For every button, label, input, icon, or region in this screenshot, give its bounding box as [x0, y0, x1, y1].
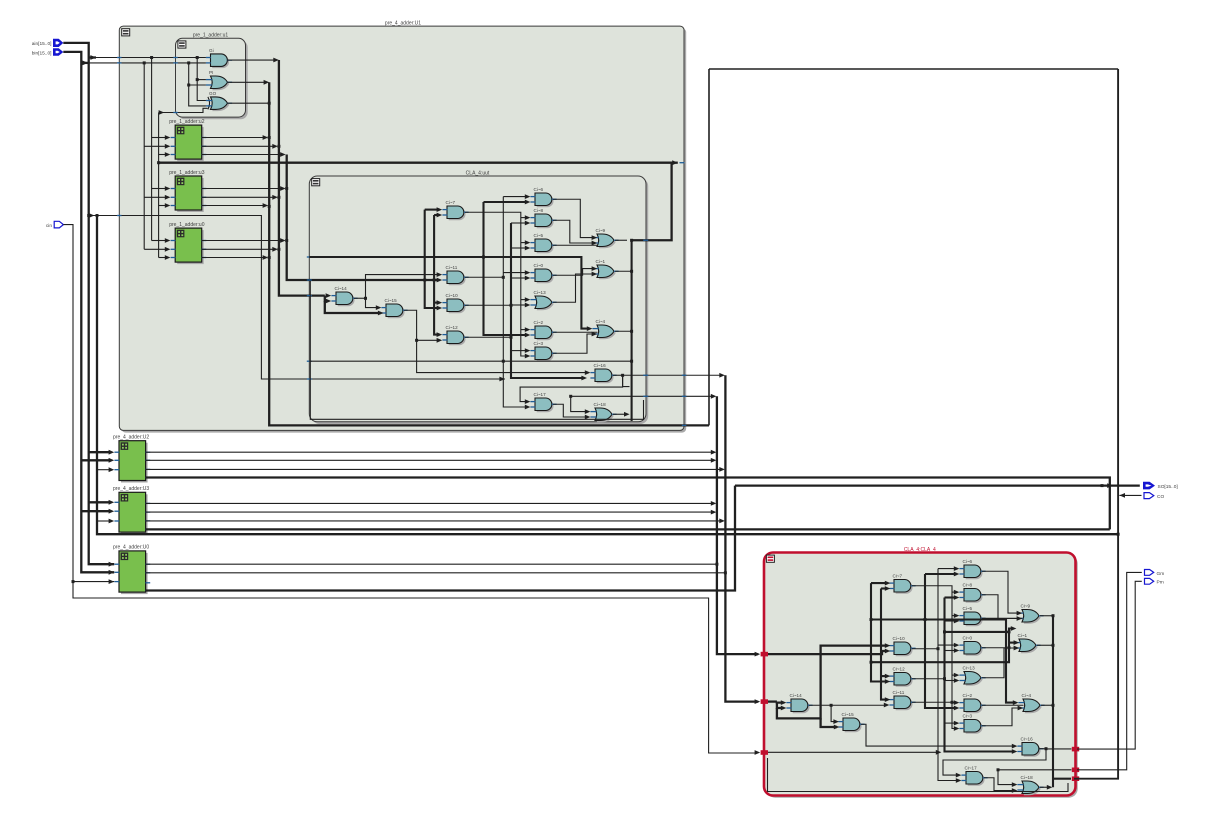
- svg-text:Ci~13: Ci~13: [534, 290, 547, 295]
- wire bin bus rail: [63, 52, 114, 575]
- output port CO: [1144, 493, 1164, 501]
- wire Ci~11 out join (uut): [465, 276, 505, 279]
- wire bottom hug wire (uut): [310, 281, 643, 419]
- wire row B (bin bit into Gi.in2/PI.in2/GO.in2): [88, 61, 206, 106]
- wire collector net B x=278.9 into Ci~14 inputs: [228, 58, 384, 316]
- and gate Ci~15 (CLA_4): [838, 712, 864, 732]
- wire Gm wire (red R2 up x=1126.7): [1077, 572, 1142, 769]
- svg-text:Ci~1: Ci~1: [1018, 633, 1028, 638]
- output port Gm: [1145, 570, 1165, 577]
- svg-text:Gi: Gi: [209, 48, 214, 53]
- and gate Ci~5 (CLA_4): [959, 606, 985, 626]
- wire Ci~14 out to Ci~11.in1 and Ci~15.in1 (uut): [354, 272, 442, 310]
- wire Ci~2 out to Ci~4 (uut): [553, 331, 598, 333]
- wire red trunk x=871: [870, 581, 891, 684]
- block pre_1_adder:u3: [169, 170, 206, 212]
- block pre_4_adder:U0: [113, 545, 150, 594]
- and gate Ci~10 (CLA_4): [889, 636, 915, 656]
- and gate Ci~16 (uut): [590, 363, 616, 383]
- wire U3 out row y=503.4 to rail x=716.9: [146, 501, 717, 506]
- wire Ci~14 out to Ci~11.in2 / Ci~15.in1 (red): [809, 703, 889, 724]
- block CLA_4:CLA_4 (selected, red): [764, 547, 1078, 798]
- red block right port 1 (Pm): [1072, 747, 1079, 752]
- and gate Ci~0 (CLA_4): [959, 636, 985, 656]
- wire u0 output rows: [202, 238, 286, 260]
- svg-text:pre_1_adder:u0: pre_1_adder:u0: [169, 222, 205, 228]
- svg-text:Ci~6: Ci~6: [963, 559, 973, 564]
- wire Ci~6 out to Ci~9.in1 (uut): [553, 199, 597, 240]
- wire red port L2 fan to Ci~14 inputs: [768, 643, 890, 729]
- wire Ci~8 out to Ci~9.in2 (red): [982, 595, 1022, 621]
- svg-text:ain[15..0]: ain[15..0]: [32, 41, 52, 47]
- wire red port L3 (cin) row to trunk x=944.5: [768, 750, 941, 755]
- wire top loop (x=709 / y=69 / x=1118.1): [709, 69, 1118, 425]
- wire Ci~7 input feeds x=424.7/x=434.1 (uut): [425, 207, 443, 337]
- svg-text:Ci~15: Ci~15: [385, 298, 398, 303]
- svg-text:Ci~17: Ci~17: [534, 392, 547, 397]
- wire red port L1 row to Ci~10.in2: [768, 649, 890, 655]
- svg-text:Ci~16: Ci~16: [594, 363, 607, 368]
- wire trunk x=503.3 (uut, Ci~6.in1/Ci~0.in1/Ci~17.in2): [502, 194, 531, 409]
- svg-text:pre_4_adder:U2: pre_4_adder:U2: [113, 435, 149, 441]
- and gate Ci~3 (uut): [530, 341, 556, 361]
- block pre_4_adder:U3: [113, 486, 150, 534]
- svg-text:Ci~8: Ci~8: [534, 208, 544, 213]
- svg-text:Ci~0: Ci~0: [963, 636, 973, 641]
- and gate Ci~6 (uut): [530, 187, 556, 207]
- svg-text:Ci~12: Ci~12: [893, 667, 906, 672]
- and gate Ci~2 (CLA_4): [959, 693, 985, 713]
- block pre_1_adder:u0: [169, 222, 206, 264]
- wire Ci~12 out join (uut): [465, 336, 513, 339]
- wire Ci~11 out join (red): [912, 701, 954, 704]
- wire red trunk x=881: [881, 586, 890, 702]
- wire U2 sum bus loop y=477.5 / x=1109.8 / y=529.4: [146, 478, 1110, 530]
- svg-text:Ci~7: Ci~7: [893, 574, 903, 579]
- wire CO port wire: [1119, 493, 1141, 498]
- wire U2 out row y=452.2 to rail x=716.9: [146, 450, 717, 455]
- wire Ci~18 out to collector (uut): [613, 412, 630, 417]
- wire bottom hug wire (red): [768, 758, 1069, 792]
- wire leaf rail x=144.2 (bin bits to u2/u3/u0 pin2): [144, 63, 170, 252]
- output bus port SO[15..0]: [1143, 482, 1178, 490]
- or gate Ci~9 (CLA_4): [1017, 604, 1043, 624]
- wire u2 output rows: [202, 135, 286, 157]
- and gate Ci~10 (uut): [442, 293, 468, 313]
- wire row y=361.2 (uut input row): [307, 360, 633, 363]
- wire OR collector x=631.6 (uut): [615, 240, 633, 421]
- red block left port 3 (cin): [761, 750, 768, 755]
- svg-text:PI: PI: [209, 70, 213, 75]
- wire Ci~5 out to Ci~9 (uut): [553, 244, 598, 246]
- wire Ci~12 out join (red): [912, 677, 946, 680]
- svg-text:Ci~1: Ci~1: [596, 259, 606, 264]
- block pre_4_adder:U1 (top-level adder slice): [119, 21, 686, 433]
- wire Ci~17 out to Ci~18.in2 (uut): [553, 404, 590, 419]
- wire thick trunk x=483.5 (uut, Ci~6.in2/Ci~2.in2): [482, 200, 530, 338]
- wire Ci~7 out trunk x=520.8 (uut): [465, 212, 530, 358]
- wire row A (ain bit into Gi.in1/PI.in1/GO.in1): [96, 56, 206, 101]
- wire cin net (port to U0.pin3 and bottom rail): [63, 225, 760, 755]
- wire trunk x=511 (uut, feeds .in2 column and Ci~16.in2): [511, 221, 587, 381]
- svg-text:Ci~9: Ci~9: [1021, 604, 1031, 609]
- wire U2 out row y=460.3: [146, 458, 717, 463]
- svg-text:Pm: Pm: [1157, 580, 1164, 586]
- and gate Ci~14 (uut): [331, 286, 357, 306]
- wire row y=396.3 out of uut to rail x=716.9: [569, 394, 716, 414]
- and gate Ci~17 (CLA_4): [961, 766, 987, 786]
- wire Ci~3 out to Ci~4.in2 (red): [982, 706, 1023, 726]
- wire Ci~0 out join (red): [982, 646, 1011, 649]
- and gate Ci~15 (uut): [381, 298, 407, 318]
- wire Ci~15 out chain to Ci~16.in1 (red): [861, 724, 1017, 748]
- wire carry-in row into CLA_4:uut: [89, 213, 505, 381]
- red block left port 2: [761, 699, 768, 704]
- svg-text:Ci~11: Ci~11: [893, 690, 905, 695]
- wire carry feedback row y=112.5 into GO: [159, 108, 208, 115]
- wire Pm wire (red R1 up x=1135.2): [1077, 581, 1142, 749]
- or gate Ci~1 (uut): [592, 259, 618, 279]
- svg-text:pre_1_adder:u3: pre_1_adder:u3: [169, 170, 205, 176]
- wire red row y=769.8 to port R2 and Ci~18.in1: [997, 768, 1072, 787]
- wire U0 out row y=572.8: [146, 572, 726, 574]
- and gate Ci~6 (CLA_4): [959, 559, 985, 579]
- wire thick row y=257 to Ci~4.in1 (uut): [307, 257, 593, 331]
- wire red thick trunk x=925 (Ci~6.in2/Ci~2.in2): [925, 572, 959, 711]
- wire Ci~8 out to Ci~9.in2 (uut): [553, 220, 597, 245]
- and gate Gi: [206, 48, 232, 68]
- wire U3 out row y=520.9: [146, 519, 725, 524]
- and gate Ci~8 (uut): [530, 208, 556, 228]
- or gate Ci~1 (CLA_4): [1014, 633, 1040, 653]
- or gate Ci~9 (uut): [592, 228, 618, 248]
- or gate Ci~4 (uut): [592, 319, 618, 339]
- or gate Ci~13 (CLA_4): [959, 666, 985, 686]
- and gate Ci~2 (uut): [530, 320, 556, 340]
- and gate Ci~5 (uut): [530, 233, 556, 253]
- svg-text:bin[15..0]: bin[15..0]: [32, 50, 52, 56]
- or gate Ci~18 (uut): [590, 402, 616, 422]
- svg-text:pre_4_adder:U0: pre_4_adder:U0: [113, 545, 149, 551]
- wire collector net A x=269.2 and row y=425.4: [228, 80, 709, 426]
- wire Ci~15 out chain to Ci~12.in2 and Ci~16.in1 (uut): [404, 310, 590, 375]
- svg-text:Ci~4: Ci~4: [1022, 693, 1032, 698]
- svg-text:Ci~6: Ci~6: [534, 187, 544, 192]
- block pre_1_adder:u2: [169, 119, 206, 161]
- wire Ci~10 out join (uut): [465, 304, 513, 307]
- wire Ci~3 out to Ci~4.in2 (uut): [553, 332, 597, 354]
- output port Pm: [1145, 578, 1164, 585]
- svg-text:Ci~13: Ci~13: [963, 666, 976, 671]
- input bus port bin[15..0]: [32, 48, 64, 56]
- svg-text:Ci~17: Ci~17: [965, 766, 978, 771]
- wire Ci~13 out to Ci~1.in2 (red): [982, 646, 1019, 678]
- svg-text:GO: GO: [209, 91, 217, 96]
- wire Ci~17 out to Ci~18.in2 (red): [984, 778, 1017, 793]
- wire P/G rail x=97 with row y=537.3: [97, 216, 1120, 536]
- svg-text:Ci~3: Ci~3: [963, 714, 973, 719]
- wire red thick row y=619.5 to Ci~4.in1: [871, 618, 1018, 705]
- and gate Ci~11 (CLA_4): [889, 690, 915, 710]
- and gate Ci~17 (uut): [530, 392, 556, 412]
- svg-text:Ci~14: Ci~14: [335, 286, 348, 291]
- wire Ci~2 out to Ci~4 (red): [982, 704, 1024, 706]
- wire Ci~13 out to Ci~1.in2 (uut): [553, 272, 597, 303]
- red block right port 3 (CO): [1072, 776, 1079, 781]
- and gate Ci~12 (uut): [442, 325, 468, 345]
- and gate Ci~7 (uut): [442, 200, 468, 220]
- wire Ci~16 out row and feedback to Ci~17.in1 (uut): [520, 373, 725, 404]
- block pre_1_adder:u1: [176, 33, 248, 120]
- and gate Ci~11 (uut): [442, 265, 468, 285]
- wire U0 out row y=564.2: [146, 563, 717, 565]
- svg-text:SO[15..0]: SO[15..0]: [1158, 484, 1178, 490]
- wire vertical x=1118.1 (top loop to CO/red port R3): [1074, 69, 1118, 779]
- svg-text:Ci~14: Ci~14: [790, 693, 803, 698]
- svg-text:Ci~8: Ci~8: [963, 583, 973, 588]
- svg-text:Ci~10: Ci~10: [446, 293, 459, 298]
- wire red second-level feed x=1009: [870, 626, 1020, 664]
- or gate Ci~13 (uut): [530, 290, 556, 310]
- and gate Ci~14 (CLA_4): [786, 693, 812, 713]
- svg-text:CO: CO: [1157, 494, 1164, 500]
- block CLA_4:uut: [309, 170, 648, 424]
- or gate Ci~18 (CLA_4): [1017, 775, 1043, 795]
- input bus port ain[15..0]: [32, 39, 64, 47]
- svg-text:Ci~3: Ci~3: [534, 341, 544, 346]
- svg-text:Ci~2: Ci~2: [534, 320, 544, 325]
- wire leaf rail x=158.6 (carry chain to pin3 rows): [157, 113, 170, 260]
- xor gate GO: [206, 91, 232, 111]
- svg-text:Ci~18: Ci~18: [1021, 775, 1034, 780]
- wire red OR collector x=1053 to port R3: [1037, 614, 1071, 789]
- svg-text:CLA_4:uut: CLA_4:uut: [466, 170, 490, 176]
- svg-text:pre_1_adder:u1: pre_1_adder:u1: [193, 33, 229, 39]
- wire U3 out row y=512.1: [146, 510, 717, 515]
- wire Ci~0 out to Ci~1.in1 (uut): [553, 266, 597, 275]
- red block right port 2 (Gm): [1072, 768, 1079, 773]
- wire leaf rail x=151.6 (ain bits to u2/u3/u0 pin1): [152, 58, 171, 243]
- svg-text:Ci~4: Ci~4: [596, 319, 606, 324]
- wire rail x=725.4 (to red port L2): [724, 375, 760, 704]
- wire rail x=716.9 (to red port L1): [715, 396, 760, 656]
- wire Ci~7 out trunk x=952 (red): [912, 586, 959, 731]
- or gate PI: [206, 70, 232, 90]
- svg-text:pre_1_adder:u2: pre_1_adder:u2: [169, 119, 205, 125]
- svg-text:Ci~5: Ci~5: [534, 233, 544, 238]
- svg-text:Ci~18: Ci~18: [594, 402, 607, 407]
- and gate Ci~12 (CLA_4): [889, 667, 915, 687]
- svg-text:pre_4_adder:U3: pre_4_adder:U3: [113, 486, 149, 492]
- svg-text:Gm: Gm: [1157, 571, 1165, 577]
- wire Ci~6 out to Ci~9.in1 (red): [982, 571, 1022, 615]
- svg-text:pre_4_adder:U1: pre_4_adder:U1: [385, 21, 421, 27]
- input port cin: [46, 221, 64, 229]
- svg-text:Ci~7: Ci~7: [446, 200, 456, 205]
- wire collector net C x=286.7 and row y=280 (Ci~11.in2): [285, 155, 442, 283]
- red block left port 1: [761, 652, 768, 657]
- svg-text:Ci~5: Ci~5: [963, 606, 973, 611]
- and gate Ci~3 (CLA_4): [959, 714, 985, 734]
- wire u3 output rows: [202, 186, 286, 208]
- wire U0 sum bus y=590.5 up x=735 to SO row y=485.6: [146, 483, 1140, 590]
- block pre_4_adder:U2: [113, 435, 150, 483]
- and gate Ci~8 (CLA_4): [959, 583, 985, 603]
- svg-text:CLA_4:CLA_4: CLA_4:CLA_4: [904, 547, 936, 553]
- svg-text:Ci~12: Ci~12: [446, 325, 459, 330]
- and gate Ci~0 (uut): [530, 263, 556, 283]
- svg-text:Ci~0: Ci~0: [534, 263, 544, 268]
- svg-text:Ci~10: Ci~10: [893, 636, 906, 641]
- svg-text:Ci~15: Ci~15: [842, 712, 855, 717]
- svg-text:Ci~16: Ci~16: [1021, 737, 1034, 742]
- wire Ci~9 carry-out loop (row y=162.7, x=671.6): [159, 160, 685, 242]
- wire red trunk x=944.5 (feeds .in2 column / Ci~16.in2): [945, 595, 1018, 754]
- and gate Ci~7 (CLA_4): [889, 574, 915, 594]
- wire Ci~10 out join (red): [912, 647, 940, 650]
- svg-text:cin: cin: [46, 223, 52, 229]
- wire Ci~16 out to red port R1 and Ci~17.in1: [943, 747, 1071, 777]
- svg-text:Ci~9: Ci~9: [596, 228, 606, 233]
- and gate Ci~16 (CLA_4): [1017, 737, 1043, 757]
- wire Ci~5 out to Ci~9 (red): [982, 617, 1023, 619]
- wire U2 out row y=469.4: [146, 467, 725, 472]
- or gate Ci~4 (CLA_4): [1018, 693, 1044, 713]
- wire ain bus rail: [63, 43, 114, 567]
- svg-text:Ci~2: Ci~2: [963, 693, 973, 698]
- svg-text:Ci~11: Ci~11: [446, 265, 458, 270]
- wire red trunk x=938 (Ci~6.in1/Ci~0.in1/Ci~17.in2): [938, 566, 961, 783]
